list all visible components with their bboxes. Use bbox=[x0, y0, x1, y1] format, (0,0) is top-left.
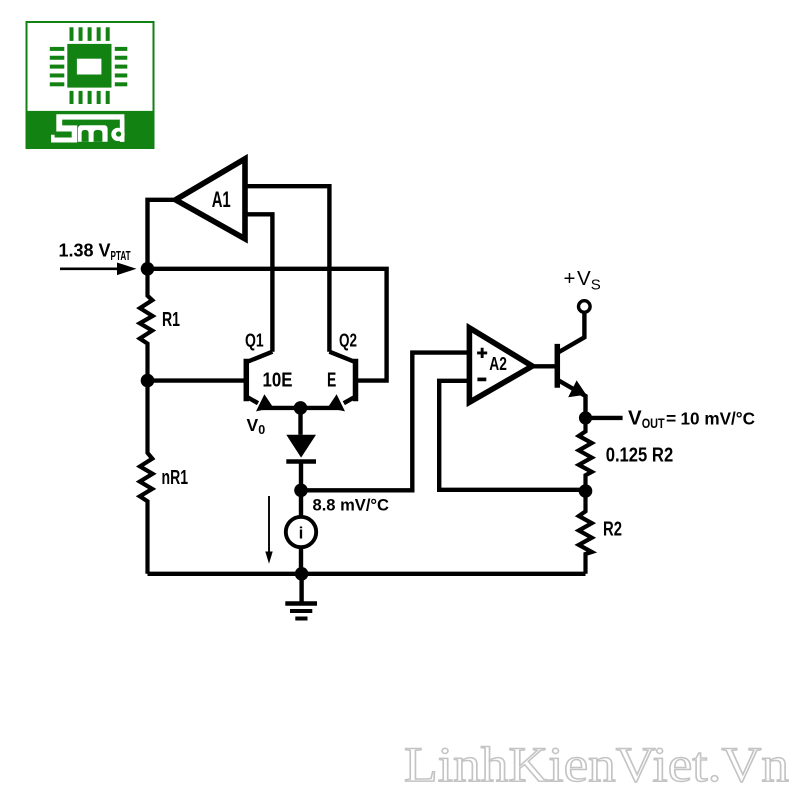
svg-text:1.38 VPTAT: 1.38 VPTAT bbox=[59, 241, 131, 264]
svg-text:Q1: Q1 bbox=[245, 329, 264, 350]
svg-text:E: E bbox=[327, 368, 336, 391]
logo Smd text bbox=[51, 114, 125, 142]
node R2 junction bbox=[579, 484, 593, 498]
logo chip top pins bbox=[70, 27, 110, 41]
wire VOUT bbox=[586, 416, 623, 420]
svg-text:0.125 R2: 0.125 R2 bbox=[606, 445, 674, 467]
node emitters bbox=[294, 401, 308, 415]
ground bbox=[285, 574, 317, 619]
bottom wire bbox=[148, 572, 586, 576]
current source I1 bbox=[286, 490, 316, 574]
node VPTAT bbox=[141, 262, 155, 276]
svg-text:R2: R2 bbox=[603, 519, 622, 541]
current source arrow bbox=[265, 496, 272, 564]
svg-text:Q2: Q2 bbox=[339, 329, 357, 350]
wire node to A2 plus input bbox=[301, 353, 469, 491]
wire A1 bottom input to Q1 collector bbox=[245, 214, 272, 351]
label 1.38 VPTAT bbox=[59, 241, 131, 264]
op-amp A2 bbox=[469, 328, 532, 403]
logo chip body bbox=[67, 44, 111, 88]
watermark bbox=[404, 736, 789, 792]
svg-text:8.8 mV/°C: 8.8 mV/°C bbox=[313, 496, 390, 515]
logo chip bottom pins bbox=[70, 91, 110, 104]
transistor Q1 bbox=[245, 329, 301, 411]
label VOUT bbox=[628, 406, 755, 431]
svg-text:+VS: +VS bbox=[564, 267, 601, 294]
resistor 0.125 R2 bbox=[579, 418, 673, 491]
resistor R1 bbox=[140, 269, 180, 381]
svg-text:VOUT=10 mV/°C: VOUT=10 mV/°C bbox=[628, 406, 755, 431]
svg-text:i: i bbox=[299, 524, 304, 543]
wire A1 output to left rail bbox=[148, 200, 174, 269]
wire node to Q1 base bbox=[148, 378, 247, 382]
svg-text:LinhKienViet.Vn: LinhKienViet.Vn bbox=[404, 736, 789, 792]
resistor R2 bbox=[579, 491, 622, 574]
op-amp A1 bbox=[176, 159, 246, 239]
logo chip right pins bbox=[115, 47, 128, 86]
diode D1 bbox=[286, 408, 316, 490]
node R1 / Q1 base bbox=[141, 374, 155, 388]
label V0 bbox=[247, 415, 266, 437]
logo chip left pins bbox=[50, 47, 65, 86]
label 8.8 mV/C bbox=[313, 496, 390, 515]
svg-text:nR1: nR1 bbox=[162, 467, 189, 489]
wire VPTAT to Q2 base bbox=[148, 269, 387, 381]
svg-text:V0: V0 bbox=[247, 415, 266, 437]
label E bbox=[327, 368, 336, 391]
logo Smd box bbox=[27, 22, 154, 148]
svg-text:10E: 10E bbox=[263, 368, 293, 391]
svg-text:A2: A2 bbox=[489, 353, 507, 374]
input arrow bbox=[60, 263, 137, 276]
svg-text:R1: R1 bbox=[162, 309, 180, 331]
node ground bbox=[295, 567, 309, 581]
transistor Q2 bbox=[301, 329, 358, 411]
node VOUT bbox=[579, 411, 592, 424]
wire A2 minus input to R2 node bbox=[439, 381, 585, 490]
label 10E bbox=[263, 368, 293, 391]
svg-text:A1: A1 bbox=[212, 187, 231, 212]
transistor Q3 bbox=[533, 314, 586, 418]
resistor nR1 bbox=[140, 381, 188, 574]
wire A1 top input to Q2 collector bbox=[245, 186, 329, 352]
supply terminal +VS bbox=[564, 267, 601, 312]
node 8.8mV bbox=[294, 484, 308, 498]
